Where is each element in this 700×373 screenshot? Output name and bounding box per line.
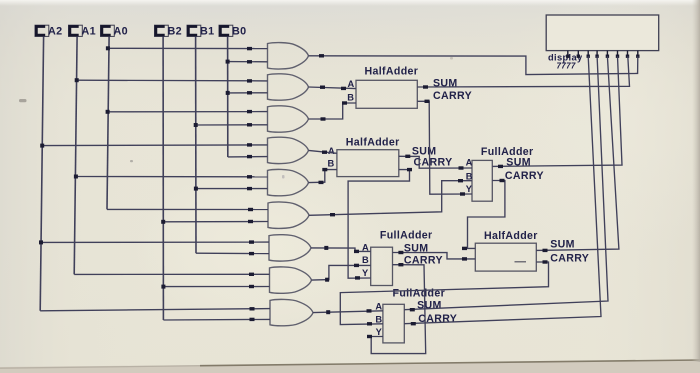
wire A2 elbow to G9 in1	[40, 309, 270, 311]
wire U6 SUM to display P4	[404, 56, 608, 310]
svg-text:A: A	[466, 157, 473, 167]
svg-text:SUM: SUM	[417, 300, 442, 312]
pin mark U3 Y	[460, 192, 465, 195]
AND gate G9	[270, 299, 313, 325]
wire A0 to G3 in1	[108, 111, 268, 113]
wire G5 out to U2 B elbow	[309, 170, 337, 183]
junction B2/G6	[161, 220, 165, 224]
svg-text:B: B	[375, 314, 382, 324]
pin mark U4 SUM	[398, 251, 403, 254]
wire G1 out to display P0	[309, 56, 638, 75]
AND gate G8	[270, 267, 312, 293]
wire U5 CARRY to U6 B	[340, 262, 548, 325]
AND gate G7	[269, 235, 311, 261]
wire U5 SUM to display P3	[536, 56, 619, 250]
wire U3 SUM to display P2	[492, 56, 622, 166]
wire A2 to G7 in1	[41, 241, 269, 243]
svg-text:HalfAdder: HalfAdder	[346, 137, 400, 149]
svg-text:SUM: SUM	[412, 145, 437, 157]
junction B2/G8	[161, 285, 165, 289]
pin mark G6 in2	[248, 220, 253, 223]
wire B2 vertical	[162, 36, 164, 320]
junction B0/G1	[226, 60, 230, 64]
pin mark U4 A	[354, 250, 359, 253]
pin mark U4 Y	[355, 276, 360, 279]
wire U1 CARRY to U3 Y	[417, 101, 472, 194]
junction G9 out	[326, 310, 330, 314]
wire G7 out to U4 A	[311, 248, 371, 252]
screen top edge highlight	[0, 0, 700, 6]
junction A1/G2	[75, 78, 79, 82]
svg-text:A2: A2	[48, 25, 63, 37]
wire G8 out to U4 B elbow	[312, 265, 371, 280]
pin mark U4 B	[354, 264, 359, 267]
pin mark U6 A	[367, 309, 372, 312]
junction B1/G3	[194, 123, 198, 127]
right screen edge shading	[692, 0, 700, 362]
pin mark G9 in2	[250, 318, 255, 321]
pin mark U3 A	[459, 166, 464, 169]
pin mark U3 CARRY	[500, 179, 505, 182]
svg-text:SUM: SUM	[550, 239, 575, 251]
pin mark G1 in2	[247, 60, 252, 63]
pin mark G8 in2	[249, 285, 254, 288]
junction G7 out	[324, 246, 328, 250]
input pin B2	[155, 25, 183, 37]
svg-text:Y: Y	[376, 327, 383, 337]
wire A2 vertical	[40, 36, 43, 310]
pin mark U3 B	[458, 179, 463, 182]
wire U1 SUM to display P1	[417, 56, 629, 87]
pin mark G6 out	[330, 213, 335, 216]
pin mark U1 B	[342, 101, 347, 104]
pin mark U1 A	[341, 87, 346, 90]
wire G9 out to U6 A	[313, 311, 383, 313]
svg-text:CARRY: CARRY	[550, 253, 589, 265]
fulladder U4 block	[371, 247, 393, 285]
wire B0 to G2 in2	[228, 92, 268, 94]
pin mark G3 in1	[247, 110, 252, 113]
junction B1/G5	[194, 187, 198, 191]
wire A0 elbow to G6 in1	[107, 208, 268, 210]
AND gate G2	[268, 74, 309, 100]
svg-text:HalfAdder: HalfAdder	[365, 65, 419, 77]
pin mark G2 out	[320, 86, 325, 89]
svg-text:Y: Y	[466, 184, 473, 194]
svg-text:A: A	[348, 79, 355, 89]
wire A1 to G5 in1	[76, 176, 268, 178]
pin mark U5 SUM	[543, 249, 548, 252]
pin mark U5 A	[462, 247, 467, 250]
display DISP1 box	[546, 15, 659, 51]
wire B2 to G8 in2	[163, 286, 269, 288]
pin mark G1 in1	[247, 47, 252, 50]
input pin B1	[187, 25, 215, 37]
pin mark U6 Y	[367, 335, 372, 338]
pin mark G4 in2	[247, 155, 252, 158]
wire B0 vertical	[227, 36, 229, 157]
svg-text:B: B	[328, 159, 335, 169]
halfadder U5 inner dash	[515, 261, 527, 263]
svg-text:B2: B2	[168, 25, 183, 37]
pin mark U5 B	[462, 257, 467, 260]
pin mark U6 CARRY	[411, 322, 416, 325]
pin mark G4 in1	[247, 143, 252, 146]
AND gate G4	[268, 137, 309, 163]
wire G2 out to U1 A	[309, 87, 357, 89]
wire U3 CARRY to U5 A	[468, 181, 505, 249]
input pin A0	[101, 25, 129, 37]
fulladder U6 block	[383, 304, 404, 343]
pin mark U2 B	[322, 168, 327, 171]
wire G4 out to U2 A	[309, 150, 337, 153]
svg-text:HalfAdder: HalfAdder	[484, 230, 538, 242]
junction A0/G3	[106, 110, 110, 114]
input pin A2	[35, 25, 63, 37]
screen bottom bezel edge	[0, 361, 700, 373]
svg-text:CARRY: CARRY	[433, 90, 472, 102]
pin mark G2 in1	[247, 79, 252, 82]
svg-text:A: A	[375, 302, 382, 312]
pin mark U2 SUM	[405, 155, 410, 158]
halfadder U2 block	[337, 150, 399, 177]
svg-text:FullAdder: FullAdder	[380, 230, 433, 242]
svg-text:B: B	[362, 255, 369, 265]
pin mark G5 out	[319, 181, 324, 184]
wire B1 elbow to G7 in2	[196, 252, 269, 254]
halfadder U1 block	[356, 80, 417, 108]
pin mark G3 out	[321, 117, 326, 120]
AND gate G3	[268, 106, 309, 132]
wire B0 elbow to G4 in2	[228, 156, 268, 158]
pin mark G3 in2	[247, 123, 252, 126]
wire A0 to G1 in1	[108, 47, 268, 49]
AND gate G6	[268, 202, 309, 228]
input pin B0	[219, 25, 247, 37]
svg-text:Y: Y	[362, 268, 369, 278]
wire A0 vertical	[107, 36, 109, 209]
pin mark U1 CARRY	[425, 100, 430, 103]
pin mark G7 in2	[249, 252, 254, 255]
pin mark G1 out	[319, 54, 324, 57]
wire U4 SUM to U5 B	[393, 253, 476, 259]
pin mark G2 in2	[247, 91, 252, 94]
pin mark G9 in1	[250, 307, 255, 310]
svg-text:A: A	[328, 146, 335, 156]
AND gate G1	[268, 43, 309, 69]
svg-text:CARRY: CARRY	[505, 170, 544, 182]
junction A1/G5	[74, 175, 78, 179]
wire B1 to G3 in2	[196, 124, 268, 126]
wire A2 to G4 in1	[42, 144, 267, 147]
wire U2 CARRY to U4 Y	[348, 170, 409, 279]
wire A1 elbow to G8 in1	[74, 273, 269, 275]
pin mark G6 in1	[248, 208, 253, 211]
wire U6 CARRY to display P5	[404, 56, 601, 324]
junction A2/G7	[39, 240, 43, 244]
wire G6 out to U3 B elbow	[309, 181, 472, 216]
photo smudge artifacts	[19, 99, 27, 102]
wire U2 SUM to U3 A	[399, 156, 472, 168]
svg-text:B0: B0	[232, 25, 247, 37]
pin mark U3 SUM	[498, 165, 503, 168]
svg-text:B: B	[466, 171, 473, 181]
svg-text:B: B	[347, 93, 354, 103]
pin mark U1 SUM	[423, 85, 428, 88]
pin mark G8 in1	[249, 273, 254, 276]
AND gate G5	[268, 169, 309, 195]
pin mark U2 A	[322, 151, 327, 154]
svg-text:7777: 7777	[557, 61, 576, 70]
halfadder U5 block	[475, 243, 536, 271]
pin mark U4 CARRY	[398, 263, 403, 266]
wire A1 to G2 in1	[77, 79, 268, 82]
svg-text:A0: A0	[114, 25, 129, 37]
wire G3 out to U1 B elbow	[309, 103, 357, 119]
svg-text:A1: A1	[82, 25, 97, 37]
wire B0 to G1 in2	[228, 61, 268, 63]
wire B1 to G5 in2	[196, 188, 268, 190]
svg-text:B1: B1	[200, 25, 215, 37]
pin mark U6 B	[367, 322, 372, 325]
wire B1 vertical	[195, 36, 197, 253]
pin mark G7 in1	[249, 240, 254, 243]
wire B2 elbow to G9 in2	[163, 318, 270, 321]
junction B0/G2	[226, 91, 230, 95]
junction A0/G1	[106, 46, 110, 50]
pin mark U6 SUM	[410, 308, 415, 311]
display DISP1 input pin stubs	[566, 51, 639, 58]
junction G8 out	[325, 278, 329, 282]
wire B2 to G6 in2	[163, 221, 268, 223]
wire U4 CARRY to U6 Y	[371, 265, 426, 354]
fulladder U3 block	[472, 160, 492, 201]
pin mark G5 in2	[247, 187, 252, 190]
input pin A1	[69, 25, 97, 37]
pin mark U5 CARRY	[543, 260, 548, 263]
pin mark U2 CARRY	[407, 168, 412, 171]
svg-text:SUM: SUM	[433, 78, 458, 90]
pin mark G5 in1	[247, 175, 252, 178]
wire A1 vertical	[74, 36, 77, 274]
junction A2/G4	[40, 144, 44, 148]
